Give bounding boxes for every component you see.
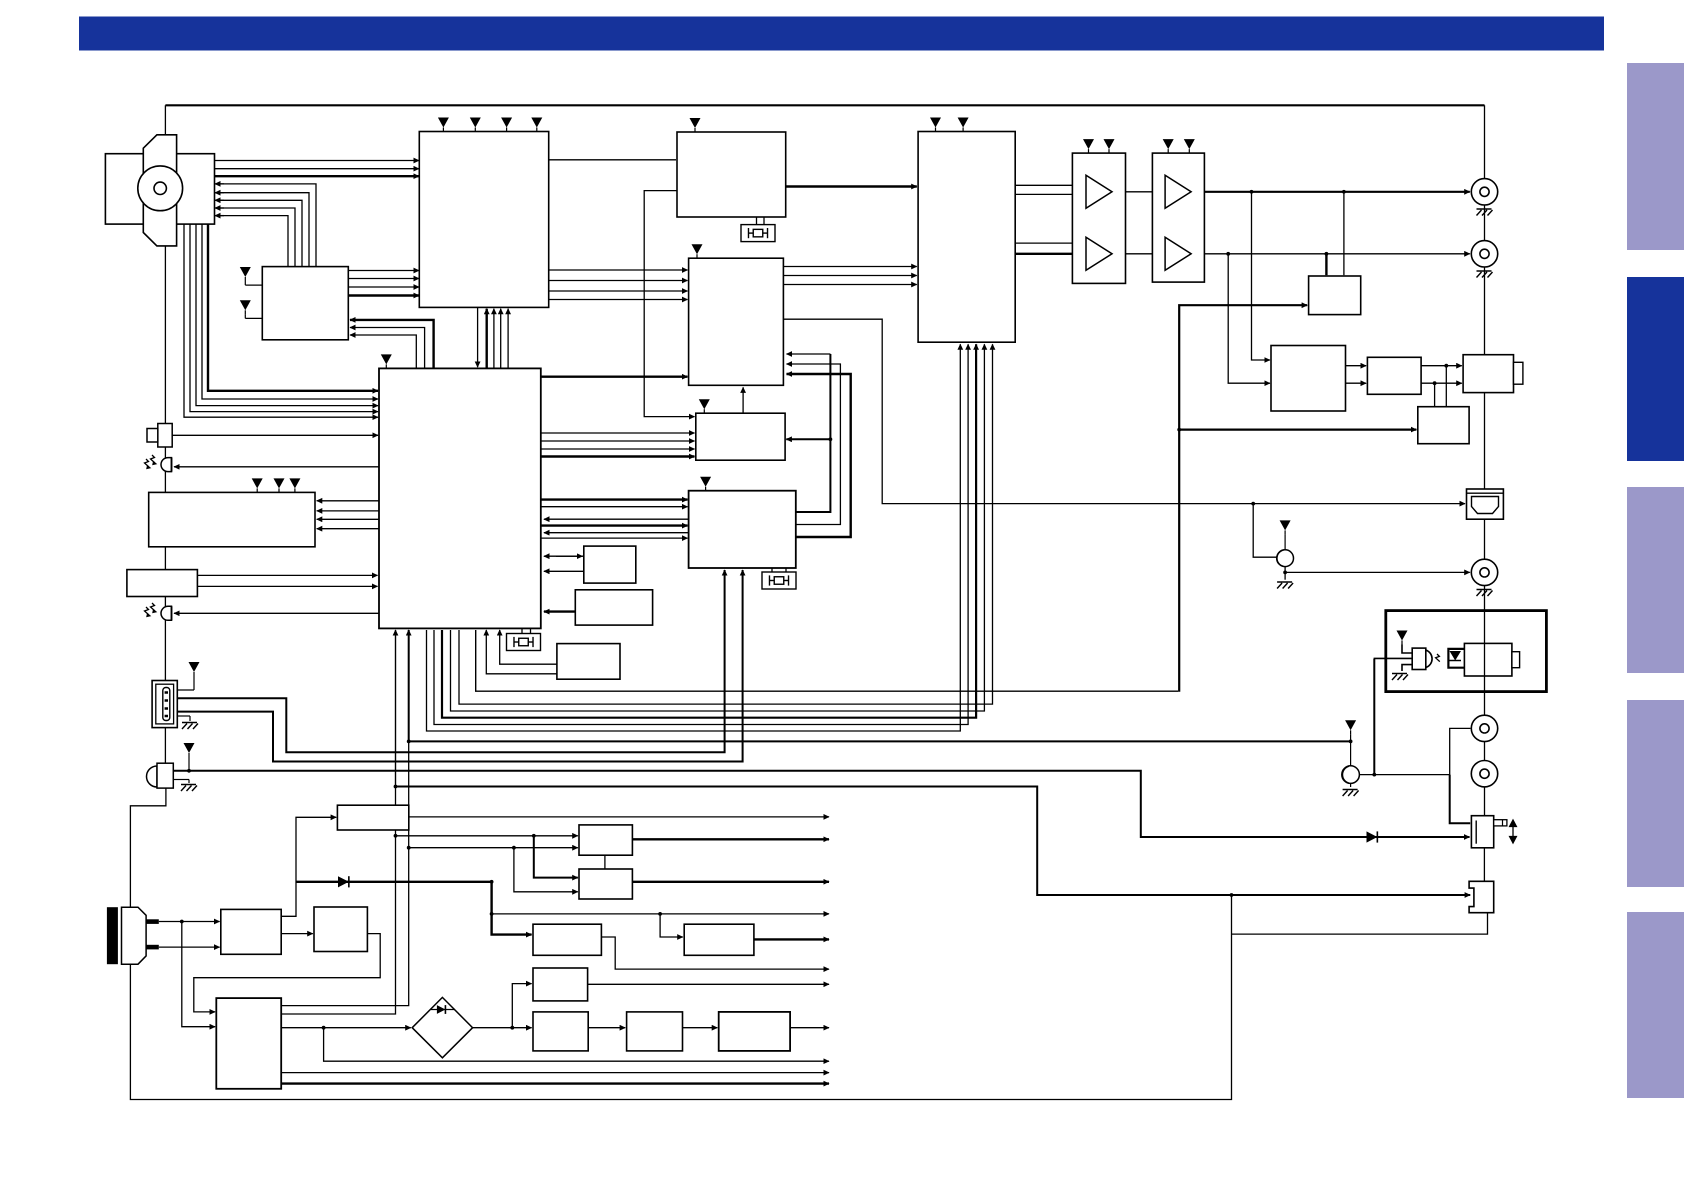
power pin amp2 a [1163,139,1174,153]
wire RF amp to RF jack a [1421,365,1462,367]
wire RF modulator to RF amp a [1346,365,1367,367]
wire audio monitor jack to rear jacks [1359,774,1449,776]
wire syscon to head-switch b [350,328,425,369]
power pin amp1 b [1104,139,1115,153]
power pin servo [700,477,711,491]
wire bus 2 [451,344,985,711]
wire syscon to video-in 1 [541,432,695,434]
audio amp stage 2 box [1152,153,1204,282]
filter box 5 [719,1012,790,1051]
junction ground rail tap [394,785,398,789]
cassette-in switch [158,424,172,448]
wire bridge branch to reg3 [512,984,531,1028]
wire key-in to syscon a [500,630,557,664]
junction RF tap b [1433,381,1437,385]
wire RF amp to RF jack b [1421,382,1462,384]
IC reset [575,590,652,625]
wire syscon to servo 4 [541,537,688,539]
wire head amp to video proc 1 [549,269,688,271]
junction audio R to RF [1226,252,1230,256]
power pin video proc [692,244,703,258]
wire syscon to timer LED [174,466,379,468]
side tab 5 [1627,912,1684,1098]
wire power switch to syscon 2 [197,585,377,587]
wire drum motor to syscon c [196,224,378,406]
wire video line-in up to video proc [742,387,744,412]
wire power switch to syscon 1 [197,574,377,576]
wire RF modulator to RF amp b [1346,382,1367,384]
junction bridge feed branch [322,1026,326,1030]
power pin clock gen [690,118,701,132]
regulator box 1 [579,825,632,855]
opto emitter LED [1412,648,1432,669]
wire bridge to filter3 [473,1027,532,1029]
wire head amp to clock-gen [549,159,676,161]
wire head-switch to drum e [216,216,288,267]
video out jack [1471,559,1497,585]
power pin display 3 [289,478,300,492]
audio rear jack L [1471,715,1497,741]
wire drum motor to syscon d [202,224,378,399]
IC video processor [689,258,784,385]
IR rays record led [145,603,156,616]
optical digital out module [1386,611,1547,692]
junction AC standby branch [180,920,184,924]
regulator box 2 [579,869,632,899]
wire DV jack to servo a (thick) [177,570,724,752]
junction always-on tap [490,912,494,916]
wire head-switch box to head amp 4 [348,294,419,296]
wire syscon to servo 3 (thick) [541,524,688,526]
junction bridge out [510,1026,514,1030]
AC plug blade [107,907,118,964]
wire tap to sub reg2 [660,914,683,937]
wire bus 3 (thick) [442,344,976,718]
line filter box [221,909,281,954]
audio out jack R [1471,241,1497,267]
power pin amp1 a [1083,139,1094,153]
opto connector bracket [1448,649,1464,668]
wire head amp to video proc 3 [549,290,688,292]
wire main rail B from switching block [281,743,409,1006]
audio monitor pin jack [1342,766,1360,784]
wire branch to video-in right (thick) [786,438,830,440]
wire head-switch to drum c [216,200,302,266]
wire reg1-reg2 link [604,855,606,869]
power pin syscon [381,354,392,368]
wire rail B to reg1 in2 [409,847,578,849]
ground monitor jack [1277,582,1293,589]
wire bus 5 [427,344,961,731]
wire bus 1 [459,344,993,704]
wire sub reg out rail [601,937,829,969]
wire branch rail down [324,1028,829,1062]
wire syscon to head-switch c [350,320,434,369]
wire encoder to audio amp in 2a [1015,242,1087,244]
opto photodiode [1450,651,1462,661]
junction monitor out [1283,571,1287,575]
wire RF tap a to converter [1445,366,1447,406]
head drum assembly [105,135,214,246]
wire syscon to front display 1 [317,500,379,502]
wire video proc to encoder 2 [783,275,916,277]
power pin video line-in [699,399,710,413]
wire through optical module [1484,611,1486,692]
side tab 4 [1627,700,1684,887]
sub regulator box [533,924,601,955]
wire head amp to video proc 4 [549,299,688,301]
wire audio monitor jack to syscon (thick) [409,630,1351,741]
wire head-switch box to head amp 2 [348,278,419,280]
power switch block [127,570,197,597]
wire rect loop to switching block [194,934,380,1012]
wire encoder to audio amp in 2b (thick) [1015,253,1087,255]
wire DV jack to servo b (thick) [177,570,742,762]
wire audio L down to RF modulator [1252,192,1270,360]
junction monitor line tap [407,740,411,744]
diode on antenna feed [1367,831,1378,842]
power pin head amp 1 [438,118,449,132]
junction opto to audio jack line [1372,773,1376,777]
wire reg3 out rail [588,983,829,985]
ground jack R [1477,271,1493,278]
wire standby diode rail (thick) [296,881,492,883]
AV output mute box [1309,276,1361,315]
sub regulator box 2 [684,924,754,955]
filter box 4 [627,1012,683,1051]
wire head amp to syscon [477,307,479,367]
power pin monitor jack [1280,520,1291,534]
IC clock generator [677,132,786,217]
wire antenna loop bottom [130,788,1231,1099]
wire syscon to front display 3 [317,518,379,520]
standby regulator box [337,805,408,830]
crystal X1 leads [756,217,758,225]
wire syscon to servo 2 [541,506,688,508]
wire RF tap b to converter [1434,383,1436,406]
wire syscon to head amp 1 [486,309,488,369]
bridge rectifier D1 [412,997,472,1057]
audio amp stage 1 box [1072,153,1125,283]
wire syscon to video-in 2 [541,440,695,442]
wire syscon to record LED [174,612,379,614]
crystal X2 [507,634,541,651]
wire amp1 to amp2 bottom [1112,253,1166,255]
wire head-switch box to head amp 3 [348,286,419,288]
key input block [557,644,620,680]
junction reg tap a [532,834,536,838]
wire reg2 out rail (thick) [632,881,829,883]
wire audio R down to RF modulator [1228,254,1270,383]
AC plug pin 2 [146,945,159,950]
wire standby branch to switching block [182,922,215,1027]
junction servo line to video-in [829,437,833,441]
wire amp2 to audio out R jack [1191,253,1470,255]
s-video out connector [1467,489,1504,519]
wire servo to syscon 2 [544,532,689,534]
wire syscon to front display 4 [317,528,379,530]
wire syscon to head amp 4 [507,309,509,369]
wire syscon to head amp 3 [500,309,502,369]
power pin DV jack [189,662,200,676]
header bar [79,17,1604,51]
DV input jack [152,681,177,728]
AC plug body [122,907,147,964]
wire clock-gen down to video-in box [644,191,694,417]
ground opto [1402,665,1412,671]
power pin phones jack [184,743,195,757]
wire cassette switch to syscon [172,434,378,436]
video monitor pin jack [1277,550,1294,567]
wire syscon to front display 2 [317,510,379,512]
phones jack [147,763,174,788]
opto light ray [1436,654,1440,662]
wire sub reg2 out rail (thick) [754,938,829,940]
IC head switching [262,267,348,340]
regulator box 3 [533,968,588,1001]
wire head-switch box to head amp 1 [348,270,419,272]
junction sub-reg2 tap [658,912,662,916]
junction audio L monitor [1342,190,1346,194]
wire key-in to syscon b [486,630,557,674]
wire encoder to audio amp in 1a [1015,184,1087,186]
power pin head-switch a [240,267,251,281]
wire AV bus to output boxes [476,630,1178,691]
wire bus 4 [434,344,968,724]
wire jack riser to audio rear L [1450,728,1471,774]
RF modulator box [1271,346,1346,412]
wire head-switch to drum d [216,208,295,267]
wire monitor jack to line jack [1284,566,1286,579]
antenna clamp connector [1469,881,1494,912]
power pin audio monitor jack [1345,720,1356,734]
remote sensor LED [161,458,171,472]
wire servo to syscon 1 [544,518,689,520]
wire filter5 out rail [790,1027,829,1029]
wire filter4 to filter5 [683,1027,718,1029]
wire always-on rail [492,913,829,915]
junction monitor stem [1349,740,1353,744]
wire video proc to encoder 3 [783,284,916,286]
wire drum to head amp 3 (FM) [215,175,420,177]
ground video out jack [1477,590,1493,597]
top border wire [165,104,1484,106]
junction AV bus to RF branch [1177,428,1181,432]
record LED [161,606,171,620]
op-amp A2 [1086,237,1112,270]
power pin head amp 2 [470,118,481,132]
rear-panel bus wire (right vertical) [1484,105,1486,815]
wire servo out up to video proc b [787,364,841,525]
wire head amp to video proc 2 [549,280,688,282]
junction reg tap b [512,846,516,850]
wire syscon to servo 1 (thick) [541,498,688,500]
wire jack riser down to RF switch [1450,775,1471,824]
wire main rail A from switching block [281,788,395,1014]
wire drum to head amp 2 [215,168,420,170]
wire filter up to standby reg [281,817,336,916]
wire reg1 out rail (thick) [632,838,829,840]
wire phones jack feed (thick) [173,771,1466,837]
wire head-switch to drum a [216,184,316,267]
power pin encoder 1 [930,118,941,132]
side tab 1 [1627,63,1684,250]
ground audio monitor jack [1350,783,1352,787]
wire switching out rail 2 [281,1072,829,1074]
wire rail A to reg1 in1 [396,835,578,837]
IR rays into sensor [145,455,156,468]
wire filter to rect block [281,933,313,935]
crystal X2 leads [521,628,523,634]
wire encoder to audio amp in 1b [1015,193,1087,195]
switch travel arrow [1510,820,1517,843]
wire standby reg output rail [409,816,829,818]
side tab 2 (active) [1627,277,1684,461]
front-panel bus wire (left vertical) [164,105,166,763]
IC servo control [689,491,796,568]
ground phones jack [173,779,189,781]
wire syscon to video-in 4 [541,455,695,457]
wire audio L to AV-out box [1343,192,1345,275]
wire clock-gen to encoder (thick) [786,185,917,187]
IC audio-video encoder [918,132,1015,343]
wire syscon to head amp 2 [493,309,495,369]
op-amp A4 [1165,237,1191,270]
wire reset to syscon (thick) [544,610,575,612]
wire branch to monitor pin jack [1253,504,1276,558]
wire syscon to video-in 3 [541,448,695,450]
wire drum to head amp 1 [215,160,420,162]
wire AV bus riser [1179,305,1307,692]
power pin display 1 [252,478,263,492]
crystal X3 [762,572,796,589]
ground DV jack [177,715,190,717]
wire diode branch to sub reg [492,882,532,935]
AC plug pin 1 [146,919,159,924]
switching regulator block [216,998,281,1089]
audio out jack L [1471,179,1497,205]
RF converter box [1418,407,1469,444]
wire audio R to AV-out box (thick) [1325,254,1327,275]
filter box 3 [533,1012,588,1051]
crystal X3 leads [771,568,773,572]
wire servo out up to video proc a [796,354,831,512]
IC system control (syscon) [379,368,541,628]
wire eeprom to syscon b [544,570,584,572]
IC video line-in [696,413,785,460]
rectifier box [314,907,367,952]
audio rear jack R [1471,761,1497,787]
wire switching block to bridge [281,1027,411,1029]
wire drum motor to syscon e (FG) [208,224,378,391]
power pin opto [1397,631,1408,645]
wire AV bus to RF converter [1179,429,1416,431]
power pin amp2 b [1184,139,1195,153]
junction RF tap a [1444,364,1448,368]
junction audio L to RF [1250,190,1254,194]
IC eeprom [584,546,636,583]
wire video proc s-video feed [783,319,1465,503]
RF amp box [1367,357,1421,394]
RF out connector [1463,355,1513,393]
optical connector [1464,643,1519,676]
junction standby diode branch [490,880,494,884]
wire opto led feed [1374,657,1413,659]
wire head-switch to drum b [216,193,309,267]
wire opto feed (thick) [1373,659,1375,775]
wire RF switch to clamp [1483,848,1485,882]
power pin encoder 2 [958,118,969,132]
junction audio R monitor [1325,252,1329,256]
crystal X1 [741,225,775,242]
junction s-video branch [1251,502,1255,506]
wire eeprom to syscon a [544,555,584,557]
wire drum motor to syscon b [190,224,378,412]
power pin head amp 3 [501,118,512,132]
wire monitor out to video out jack [1285,571,1470,573]
wire amp1 to amp2 top [1112,191,1166,193]
wire amp2 to audio out L jack (thick) [1191,191,1470,193]
wire switching out rail 3 (thick) [281,1082,829,1084]
junction ground to antenna loop [1230,893,1234,897]
wire ground return (thick) [395,630,397,787]
ground jack L [1477,209,1493,216]
diode standby rail [338,876,349,887]
RF output switch [1471,816,1506,848]
wire syscon to video proc mode (thick) [541,376,688,378]
wire video proc to encoder 1 [783,266,916,268]
wire RF clamp to loop [1232,914,1488,935]
wire AC pin1 to filter [159,921,220,923]
power pin head-switch b [240,300,251,314]
power pin display 2 [274,478,285,492]
side tab 3 [1627,487,1684,673]
wire AC pin2 to filter [159,946,220,948]
power pin head amp 4 [531,118,542,132]
wire syscon to head-switch a [350,335,416,368]
op-amp A1 [1086,175,1112,208]
IC head amplifier [419,132,548,308]
wire tap to reg2 in1 (thick) [534,836,578,878]
wire filter3 to filter4 [588,1027,625,1029]
op-amp A3 [1165,175,1191,208]
wire tap to reg2 in2 [514,848,578,892]
wire drum motor to syscon a [184,224,378,417]
front display block [149,492,315,546]
wire servo out up to video proc c (thick) [787,374,851,537]
